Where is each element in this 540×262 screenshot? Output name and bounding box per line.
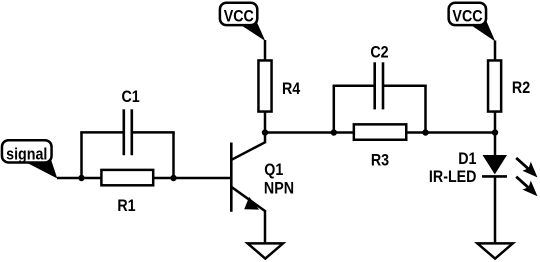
svg-text:VCC: VCC: [224, 7, 254, 25]
svg-text:VCC: VCC: [452, 7, 482, 25]
wire: C1 loop right vertical: [172, 132, 175, 178]
svg-text:IR-LED: IR-LED: [429, 168, 477, 186]
capacitor C1: [124, 109, 132, 155]
node: junction left of R1: [78, 175, 84, 181]
node: LED rail junction: [492, 129, 498, 135]
wire: R3 block to LED rail: [426, 131, 496, 134]
wire: R2 to LED node: [494, 111, 497, 133]
resistor R4: [258, 60, 271, 111]
wire: LED node to diode: [494, 133, 497, 157]
svg-text:R1: R1: [117, 197, 135, 215]
collector diagonal: [232, 142, 266, 160]
resistor R1: [101, 170, 153, 185]
ground (LED cathode): [477, 243, 512, 258]
svg-text:Q1: Q1: [264, 161, 283, 179]
LED emission arrow 2: [516, 177, 537, 197]
svg-text:D1: D1: [458, 150, 476, 168]
wire: C2 loop left vertical: [333, 86, 336, 133]
wire: C2 loop right vertical: [424, 86, 427, 133]
capacitor C2: [375, 62, 383, 109]
LED emission arrow 1: [516, 158, 537, 178]
wire: collector node to R3 block: [265, 131, 334, 134]
wire: VCC to R2: [494, 41, 497, 62]
svg-text:NPN: NPN: [264, 180, 294, 198]
emitter diagonal: [232, 187, 266, 211]
ground (Q1 emitter): [248, 243, 283, 258]
svg-text:R4: R4: [282, 80, 300, 98]
emitter vertical to ground: [264, 210, 267, 243]
wire: signal to Q1 base: [57, 177, 230, 180]
power flag VCC (right): [449, 3, 496, 42]
wire: C1 top rail left: [80, 131, 124, 134]
resistor R3: [354, 124, 406, 139]
wire: C1 loop left vertical: [80, 132, 83, 178]
wire: C2 top rail right: [383, 85, 427, 88]
wire: between R3 nodes: [334, 131, 426, 134]
diode D1 (IR LED, anode top): [482, 155, 507, 176]
wire: C2 top rail left: [333, 85, 375, 88]
svg-text:C1: C1: [121, 88, 139, 106]
transistor Q1: [231, 133, 265, 244]
node: R3 right junction: [422, 129, 428, 135]
collector vertical: [264, 133, 267, 144]
net label: signal: [2, 140, 57, 178]
power flag VCC (left): [220, 3, 265, 41]
base bar: [230, 143, 233, 212]
svg-text:signal: signal: [6, 145, 47, 163]
node: R3 left junction: [331, 129, 337, 135]
wire: VCC to R4: [264, 40, 267, 61]
wire: diode to ground: [494, 176, 497, 243]
emitter arrowhead: [244, 197, 259, 210]
svg-text:R3: R3: [371, 151, 389, 169]
wire: C1 top rail right: [132, 131, 175, 134]
svg-text:C2: C2: [370, 43, 388, 61]
node: junction right of R1: [170, 175, 176, 181]
wire: R4 to collector node: [264, 111, 267, 133]
node: collector junction: [262, 129, 268, 135]
resistor R2: [488, 60, 501, 111]
svg-text:R2: R2: [512, 79, 530, 97]
